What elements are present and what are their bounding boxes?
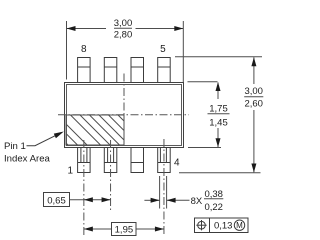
dim 3,00/2,80 extension line right <box>182 21 184 82</box>
svg-text:1,45: 1,45 <box>209 118 228 129</box>
svg-text:Pin 1: Pin 1 <box>4 141 26 152</box>
arrow dim 3,00/2,60 down <box>251 164 256 173</box>
pin 4 centerline <box>163 139 165 236</box>
horizontal centerline <box>58 114 189 116</box>
pin 1 index area hatch <box>66 115 124 145</box>
svg-text:5: 5 <box>160 44 166 55</box>
svg-text:Index Area: Index Area <box>4 153 51 164</box>
package body inner outline <box>67 85 182 146</box>
arrow dim 1,95 right <box>155 227 164 232</box>
svg-text:2,80: 2,80 <box>114 30 133 41</box>
pin 8 (top) <box>78 58 91 83</box>
dim 3,00/2,60 extension top <box>175 56 262 58</box>
svg-text:2,60: 2,60 <box>244 98 263 109</box>
arrow dim 0,65 right <box>102 197 111 202</box>
svg-text:1,95: 1,95 <box>115 225 134 236</box>
arrow dim 3,00/2,80 left <box>67 26 76 31</box>
package body outer outline <box>65 83 184 148</box>
arrow dim 3,00/2,60 up <box>251 57 256 66</box>
dim 3,00/2,80 dimension line <box>67 27 184 29</box>
svg-text:3,00: 3,00 <box>244 86 263 97</box>
dim 3,00/2,80 extension line left <box>66 21 68 80</box>
dim 1,95 dimension line <box>84 228 164 230</box>
dim 8X 0,38/0,22 extension lines <box>160 176 167 209</box>
pin 7 (top) <box>104 58 117 83</box>
feature control frame <box>195 218 249 233</box>
pin 5 (top) <box>158 58 171 83</box>
arrow dim 0,38 left pointing right <box>151 198 160 203</box>
vertical centerline <box>123 74 125 116</box>
dim 1,75/1,45 dimension line <box>208 83 230 148</box>
dim 3,00/2,60 dimension line <box>244 57 263 172</box>
arrow dim 0,65 left <box>84 197 93 202</box>
pin 1 (bottom) <box>78 147 91 173</box>
dim 1,75/1,45 extension bottom <box>188 147 221 149</box>
dim 1,95 box <box>112 223 137 236</box>
pin 2 (bottom) <box>104 147 117 173</box>
arrow pin1 index leader <box>54 132 64 139</box>
svg-text:1: 1 <box>68 166 74 177</box>
dim 1,75/1,45 extension top <box>188 81 218 83</box>
pin 1 index leader line <box>27 133 62 146</box>
svg-text:0,22: 0,22 <box>204 202 223 213</box>
svg-text:8: 8 <box>81 44 87 55</box>
arrow dim 0,38 right pointing left <box>167 198 176 203</box>
dim 0,65 box <box>44 193 70 207</box>
pin 3 (bottom) <box>131 148 144 173</box>
arrow dim 1,75/1,45 down <box>216 138 221 147</box>
arrow dim 1,95 left <box>84 227 93 232</box>
pin 6 (top) <box>131 58 144 83</box>
pin 4 (bottom) <box>158 147 171 173</box>
dim 0,65 dimension line <box>70 199 111 201</box>
arrow dim 1,75/1,45 up <box>216 82 221 91</box>
svg-text:0,13: 0,13 <box>214 221 233 232</box>
pin 2 centerline <box>110 140 112 211</box>
svg-text:1,75: 1,75 <box>209 104 228 115</box>
svg-text:0,65: 0,65 <box>47 195 66 206</box>
dim 8X 0,38/0,22 arrow lines <box>144 199 223 201</box>
arrow dim 3,00/2,80 right <box>174 26 183 31</box>
arrowheads <box>54 26 257 232</box>
svg-text:M: M <box>236 221 243 230</box>
dim 3,00/2,60 extension bottom <box>179 172 261 174</box>
svg-text:8X: 8X <box>191 196 203 207</box>
pin 1 centerline <box>83 140 85 236</box>
svg-text:3,00: 3,00 <box>114 18 133 29</box>
svg-text:0,38: 0,38 <box>204 189 223 200</box>
svg-text:4: 4 <box>174 158 180 169</box>
